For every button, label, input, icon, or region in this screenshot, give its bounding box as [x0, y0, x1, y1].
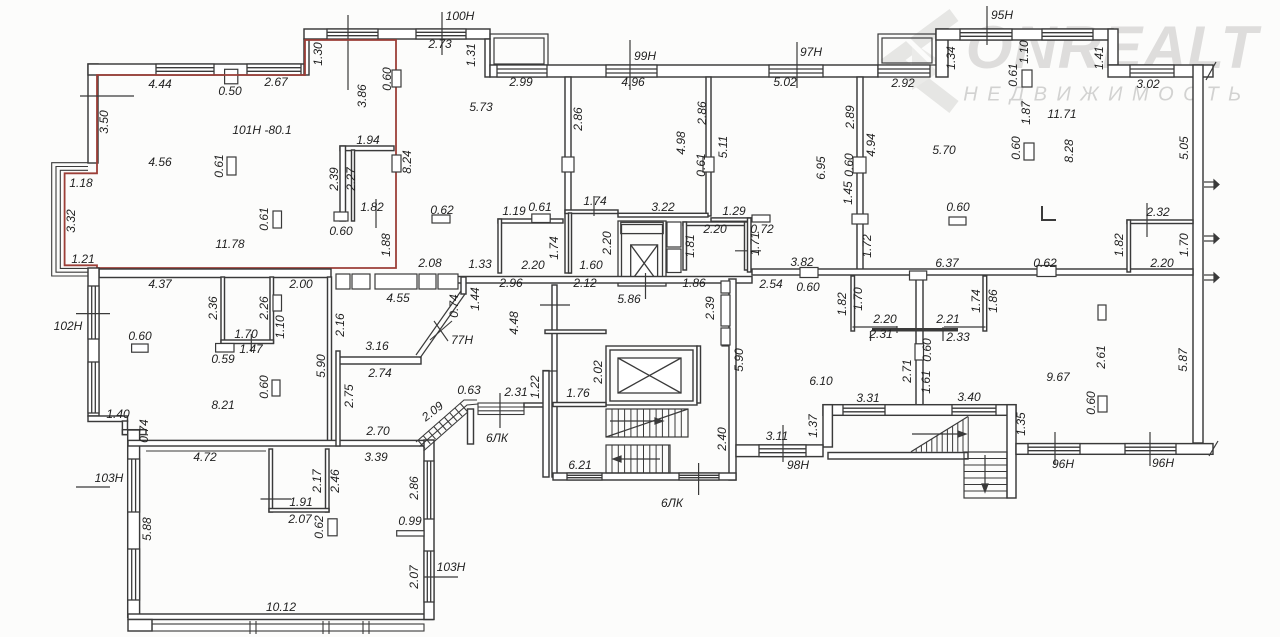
tick 100H [441, 12, 443, 55]
box 0.61 top wall [1022, 70, 1032, 87]
window 102H a [88, 286, 99, 339]
svg-text:5.05: 5.05 [1177, 136, 1191, 160]
svg-text:0.59: 0.59 [211, 352, 235, 366]
svg-text:2.86: 2.86 [571, 107, 585, 132]
svg-text:1.70: 1.70 [234, 327, 258, 341]
svg-text:77Н: 77Н [451, 333, 473, 347]
tick 96H a [1054, 432, 1056, 465]
window 103H a [128, 459, 140, 512]
svg-text:1.19: 1.19 [502, 204, 526, 218]
svg-text:101Н -80.1: 101Н -80.1 [232, 123, 291, 137]
svg-text:2.71: 2.71 [900, 359, 914, 383]
tick 1.91 [261, 498, 292, 500]
bay window rings [52, 163, 88, 276]
outer wall right [1193, 65, 1203, 443]
step wall [304, 39, 309, 75]
svg-text:0.74: 0.74 [447, 294, 461, 318]
svg-text:8.28: 8.28 [1062, 139, 1076, 163]
window 96H a [1028, 444, 1080, 455]
red outline room 101H [65, 40, 396, 268]
svg-text:4.44: 4.44 [148, 77, 172, 91]
door on red wall mid [392, 155, 401, 172]
stairs 98H arrow [912, 431, 966, 437]
door on red wall top [392, 70, 401, 87]
svg-text:2.17: 2.17 [310, 468, 324, 494]
svg-text:2.96: 2.96 [498, 276, 523, 290]
vent arrow 3 [1204, 273, 1219, 282]
svg-text:5.86: 5.86 [617, 292, 641, 306]
svg-text:1.71: 1.71 [748, 232, 762, 255]
stairs 6LK upper flight [606, 409, 688, 437]
tick 4.48 [540, 304, 570, 306]
room 2.36 bottom wall [221, 340, 274, 344]
door box c [721, 328, 730, 345]
svg-text:2.27: 2.27 [344, 166, 358, 192]
svg-text:2.31: 2.31 [503, 385, 527, 399]
stairs 98H down flight [964, 452, 1007, 498]
svg-text:1.70: 1.70 [1177, 233, 1191, 257]
window B1 [327, 29, 378, 39]
stairs 6LK lower flight [606, 445, 670, 473]
svg-text:5.87: 5.87 [1176, 347, 1190, 372]
svg-text:0.62: 0.62 [1033, 256, 1057, 270]
svg-text:1.82: 1.82 [835, 292, 849, 316]
svg-text:3.86: 3.86 [355, 84, 369, 108]
svg-text:0.99: 0.99 [398, 514, 422, 528]
svg-text:3.50: 3.50 [97, 110, 111, 134]
tick 95H [986, 6, 988, 45]
svg-text:2.99: 2.99 [508, 75, 533, 89]
top wall E [1108, 65, 1213, 77]
tick 103H right [424, 576, 458, 578]
room 2.32 left wall [1127, 220, 1131, 272]
svg-text:4.94: 4.94 [864, 133, 878, 157]
wall room 1.60 left [569, 213, 572, 273]
outer wall left upper [88, 64, 98, 163]
box 1.10 [273, 295, 282, 311]
svg-text:2.31: 2.31 [868, 327, 892, 341]
window 3.02 [1130, 65, 1174, 77]
svg-text:9.67: 9.67 [1046, 370, 1071, 384]
long wall west [457, 277, 752, 284]
svg-text:2.07: 2.07 [407, 564, 421, 590]
svg-text:1.61: 1.61 [919, 370, 933, 393]
window 3.40 [952, 405, 996, 416]
corridor door box 1 [336, 274, 350, 289]
svg-text:2.20: 2.20 [1149, 256, 1174, 270]
svg-text:8.21: 8.21 [211, 398, 234, 412]
wall 1.40 [88, 416, 128, 422]
room 10.12 bottom wall [128, 614, 433, 620]
window 3.11 [759, 445, 806, 457]
box 0.72 [752, 215, 770, 222]
box 0.60 8.21 [272, 380, 280, 396]
wall 0.74 [122, 430, 146, 435]
pilaster 0.50 [225, 69, 238, 84]
top wall D [936, 29, 1113, 40]
door on wall 6.10 [915, 344, 924, 360]
stairwell 6LK bottom wall [553, 473, 736, 480]
svg-text:1.94: 1.94 [356, 133, 380, 147]
svg-text:0.63: 0.63 [457, 383, 481, 397]
elevator 1 cab with X [631, 245, 658, 282]
svg-text:100Н: 100Н [446, 9, 475, 23]
svg-text:2.67: 2.67 [263, 75, 289, 89]
door on wall x857 a [853, 157, 866, 173]
tick 98H [782, 425, 784, 462]
box 0.60 102H [132, 344, 149, 352]
wall 3.22 [618, 213, 708, 217]
diagonal tick X 77H [430, 321, 452, 341]
svg-text:4.96: 4.96 [621, 75, 645, 89]
svg-text:6ЛК: 6ЛК [486, 431, 509, 445]
window D2 [1042, 29, 1093, 40]
room R right wall [983, 276, 987, 331]
porch rectangle 2.99 [490, 34, 548, 66]
ramp 2.09 diagonal band [416, 400, 478, 451]
svg-text:3.39: 3.39 [364, 450, 388, 464]
wall 1.22 [543, 371, 549, 477]
svg-text:1.40: 1.40 [106, 407, 130, 421]
svg-text:5.90: 5.90 [732, 348, 746, 372]
svg-text:0.61: 0.61 [212, 154, 226, 177]
tick 1.82 [375, 199, 377, 228]
svg-text:2.70: 2.70 [365, 424, 390, 438]
corridor right wall [461, 277, 466, 294]
svg-text:2.89: 2.89 [843, 105, 857, 130]
wall room 1.19 left [498, 219, 502, 273]
svg-text:1.70: 1.70 [851, 287, 865, 311]
svg-text:0.60: 0.60 [1009, 136, 1023, 160]
stairwell 98H bottom wall [828, 453, 968, 460]
window 2.67 [247, 64, 301, 75]
svg-text:3.32: 3.32 [64, 209, 78, 233]
svg-text:1.35: 1.35 [1014, 412, 1028, 436]
svg-text:4.98: 4.98 [674, 131, 688, 155]
svg-text:0.60: 0.60 [128, 329, 152, 343]
svg-text:1.87: 1.87 [1019, 100, 1033, 125]
box 0.60 right [1024, 143, 1034, 160]
svg-text:98Н: 98Н [787, 458, 809, 472]
svg-text:1.88: 1.88 [379, 233, 393, 257]
svg-text:1.10: 1.10 [1017, 40, 1031, 64]
svg-text:2.46: 2.46 [328, 469, 342, 494]
svg-text:0.60: 0.60 [329, 224, 353, 238]
svg-text:3.31: 3.31 [856, 391, 879, 405]
corridor door box 3 [375, 274, 417, 289]
svg-text:2.12: 2.12 [572, 276, 597, 290]
svg-text:2.73: 2.73 [427, 37, 452, 51]
svg-text:0.50: 0.50 [218, 84, 242, 98]
end break tick [1209, 441, 1218, 456]
svg-text:4.48: 4.48 [507, 311, 521, 335]
svg-text:3.82: 3.82 [790, 255, 814, 269]
svg-text:2.32: 2.32 [1145, 205, 1170, 219]
svg-text:0.60: 0.60 [257, 375, 271, 399]
svg-text:8.24: 8.24 [400, 150, 414, 174]
svg-text:3.40: 3.40 [957, 390, 981, 404]
window 96H b [1125, 444, 1176, 455]
svg-text:1.72: 1.72 [860, 234, 874, 258]
tick 99H [629, 40, 631, 90]
tick 2.33 [942, 327, 944, 341]
svg-text:6.21: 6.21 [568, 458, 591, 472]
door 0.60 on long wall [800, 268, 818, 278]
svg-text:2.74: 2.74 [367, 366, 392, 380]
long wall east [752, 269, 1193, 275]
svg-text:1.30: 1.30 [311, 42, 325, 66]
window 4.44 [156, 64, 214, 75]
svg-text:4.55: 4.55 [386, 291, 410, 305]
stairs 6LK lower arrow [613, 456, 660, 462]
svg-text:0.60: 0.60 [946, 200, 970, 214]
svg-text:2.20: 2.20 [600, 231, 614, 256]
svg-text:1.45: 1.45 [841, 181, 855, 205]
top wall C [490, 65, 878, 77]
svg-text:3.11: 3.11 [766, 429, 788, 443]
wall 2.75 [336, 351, 340, 446]
tick 5.86 [645, 273, 647, 299]
closet top wall 1.94 [340, 146, 394, 151]
window band 2.31 [478, 403, 524, 415]
tick 2.31 [499, 393, 501, 428]
window 103H b [128, 549, 140, 600]
svg-text:1.74: 1.74 [583, 194, 607, 208]
tick 102H [76, 313, 110, 315]
svg-text:0.61: 0.61 [1006, 63, 1020, 86]
svg-text:5.73: 5.73 [469, 100, 493, 114]
svg-text:1.47: 1.47 [239, 342, 264, 356]
tick 1.74 [593, 196, 595, 216]
window 102H b [88, 362, 99, 413]
box 0.62 [432, 215, 450, 223]
corridor door box 4 [419, 274, 436, 289]
outer wall left 103H [128, 430, 140, 618]
svg-text:102Н: 102Н [54, 319, 83, 333]
room L bottom end tick [896, 326, 898, 333]
svg-text:2.75: 2.75 [342, 384, 356, 409]
bottom-left foot [128, 620, 152, 632]
box 0.61 a [227, 157, 236, 175]
door 0.59 [216, 344, 234, 353]
inner room bottom wall [269, 509, 329, 513]
tick 1.70/1.47 [250, 334, 252, 352]
svg-text:6.37: 6.37 [935, 256, 960, 270]
svg-text:0.61: 0.61 [257, 207, 271, 230]
svg-text:2.33: 2.33 [945, 330, 970, 344]
svg-text:99Н: 99Н [634, 49, 656, 63]
shaft side box a [667, 222, 681, 247]
svg-text:1.74: 1.74 [547, 236, 561, 260]
svg-text:2.20: 2.20 [520, 258, 545, 272]
tick 6LK [698, 463, 700, 495]
svg-text:2.20: 2.20 [702, 222, 727, 236]
window 3.31 [843, 405, 885, 416]
svg-text:1.33: 1.33 [468, 257, 492, 271]
svg-text:2.61: 2.61 [1094, 345, 1108, 369]
svg-text:0.62: 0.62 [312, 515, 326, 539]
room 10.12 right wall [424, 440, 434, 620]
central wall 5.90 [328, 277, 332, 443]
svg-text:1.82: 1.82 [1112, 233, 1126, 257]
step wall 1.34 [936, 29, 948, 77]
wall 3.16/2.74 [337, 357, 421, 364]
svg-text:1.74: 1.74 [969, 289, 983, 313]
svg-text:1.82: 1.82 [360, 200, 384, 214]
svg-text:1.44: 1.44 [468, 287, 482, 311]
watermark logo chevron [893, 15, 954, 107]
window 4.96 [606, 65, 657, 77]
svg-text:6.95: 6.95 [814, 156, 828, 180]
stairs 98H down arrow [982, 455, 988, 492]
porch rectangle 2.92 [878, 34, 936, 65]
diagonal wall 77H [416, 291, 465, 358]
stub 0.99 [397, 531, 424, 536]
box 0.61 b [273, 211, 282, 228]
svg-text:5.88: 5.88 [140, 517, 154, 541]
door on wall x706 [703, 157, 714, 172]
svg-text:5.11: 5.11 [716, 136, 730, 158]
svg-text:2.02: 2.02 [591, 360, 605, 385]
window 2.99 [497, 65, 547, 77]
elevator2 right wall [697, 346, 701, 403]
svg-text:1.31: 1.31 [464, 43, 478, 66]
tick 2.32 [1146, 203, 1148, 237]
svg-text:6ЛК: 6ЛК [661, 496, 684, 510]
wall 1.29 [711, 218, 752, 221]
wall 5.90 right [729, 279, 736, 480]
inner wall line [146, 450, 266, 452]
svg-text:0.74: 0.74 [137, 419, 151, 443]
wall 6.10/9.67 [916, 279, 923, 405]
svg-text:97Н: 97Н [800, 45, 822, 59]
svg-text:3.02: 3.02 [1136, 77, 1160, 91]
door box b [721, 295, 730, 326]
wall room 1.19 top [498, 219, 563, 223]
door on wall x565 [562, 157, 574, 172]
svg-text:1.34: 1.34 [944, 46, 958, 70]
corridor door box 2 [352, 274, 370, 289]
room 2.20/1.81 top [683, 222, 748, 226]
wall 5.11/2.89 mid [706, 77, 711, 216]
svg-text:1.10: 1.10 [273, 315, 287, 339]
room 2.20/1.81 left [683, 222, 687, 270]
svg-text:103Н: 103Н [437, 560, 466, 574]
room 2.32 top wall [1127, 220, 1193, 224]
wall 6LK entry [524, 403, 545, 407]
stairwell 98H left wall [823, 405, 832, 447]
closet left wall 2.39 [340, 146, 346, 221]
tick 103H left [76, 486, 110, 488]
window 2.07 right [424, 551, 434, 602]
svg-text:5.90: 5.90 [314, 354, 328, 378]
elevator shaft 1 [618, 221, 666, 286]
svg-text:2.16: 2.16 [333, 313, 347, 338]
top wall B [304, 29, 490, 39]
tick 3.50 [80, 95, 134, 97]
wall stub 1.71 [748, 218, 752, 272]
elevator shaft 2 [606, 346, 697, 405]
svg-text:103Н: 103Н [95, 471, 124, 485]
tick 100H-left [347, 15, 349, 90]
end break tick top right [1206, 62, 1216, 80]
svg-text:2.86: 2.86 [695, 101, 709, 126]
svg-text:0.62: 0.62 [430, 203, 454, 217]
room R bottom line [944, 326, 986, 328]
svg-text:5.02: 5.02 [773, 75, 797, 89]
svg-text:0.60: 0.60 [1084, 391, 1098, 415]
bottom sill band [152, 621, 424, 634]
room 2.20/1.81 right [745, 222, 749, 270]
svg-text:2.86: 2.86 [407, 476, 421, 501]
shaft side box b [667, 249, 681, 273]
step wall 1.31 [485, 39, 490, 77]
svg-text:1.60: 1.60 [579, 258, 603, 272]
svg-text:1.37: 1.37 [806, 413, 820, 438]
svg-text:1.76: 1.76 [566, 386, 590, 400]
tick 97H [796, 42, 798, 88]
elevator 2 cab with X [618, 358, 681, 393]
jog line [543, 370, 557, 372]
svg-text:1.91: 1.91 [289, 495, 312, 509]
svg-text:1.21: 1.21 [71, 252, 94, 266]
svg-text:2.39: 2.39 [703, 296, 717, 321]
room L bottom line [853, 326, 898, 328]
top wall A [88, 64, 305, 75]
svg-text:1.81: 1.81 [683, 234, 697, 257]
door 0.61 [532, 214, 550, 223]
window 6.21 [567, 473, 602, 480]
svg-text:2.26: 2.26 [257, 296, 271, 321]
stairs 98H flight [911, 417, 968, 452]
door box a [721, 281, 730, 293]
box 0.60 9.67 [1098, 396, 1107, 412]
svg-text:2.07: 2.07 [287, 512, 313, 526]
box 0.60 sill [334, 212, 348, 221]
svg-text:1.18: 1.18 [69, 176, 93, 190]
wall 1.45 right [857, 77, 863, 273]
svg-text:4.56: 4.56 [148, 155, 172, 169]
wall 3.11 [736, 445, 823, 457]
stairwell 98H right wall [1007, 405, 1016, 498]
svg-text:0.60: 0.60 [842, 153, 856, 177]
door on wall x857 b [852, 214, 868, 224]
svg-text:10.12: 10.12 [266, 600, 296, 614]
svg-text:1.86: 1.86 [682, 276, 706, 290]
window 6LK [679, 473, 719, 480]
tick 2.31 [870, 331, 872, 341]
window D1 [960, 29, 1012, 40]
vent arrow 2 [1204, 234, 1219, 243]
svg-text:6.10: 6.10 [809, 374, 833, 388]
wall below 101H [99, 269, 331, 278]
svg-text:11.78: 11.78 [215, 237, 244, 251]
svg-text:1.29: 1.29 [722, 204, 746, 218]
box 0.62 lower [328, 519, 337, 536]
wall 96H band [1016, 444, 1213, 455]
thick bar under rooms [872, 328, 958, 332]
svg-text:1.22: 1.22 [528, 375, 542, 399]
tick 96H b [1149, 432, 1151, 466]
svg-text:96Н: 96Н [1152, 456, 1174, 470]
closet inner wall 2.27 [352, 150, 355, 221]
svg-text:3.16: 3.16 [365, 339, 389, 353]
box 0.60 top right [949, 217, 966, 225]
wall 1.74 top [565, 210, 618, 214]
corner bracket symbol [1042, 206, 1056, 220]
svg-text:2.21: 2.21 [935, 312, 959, 326]
svg-text:11.71: 11.71 [1047, 107, 1076, 121]
